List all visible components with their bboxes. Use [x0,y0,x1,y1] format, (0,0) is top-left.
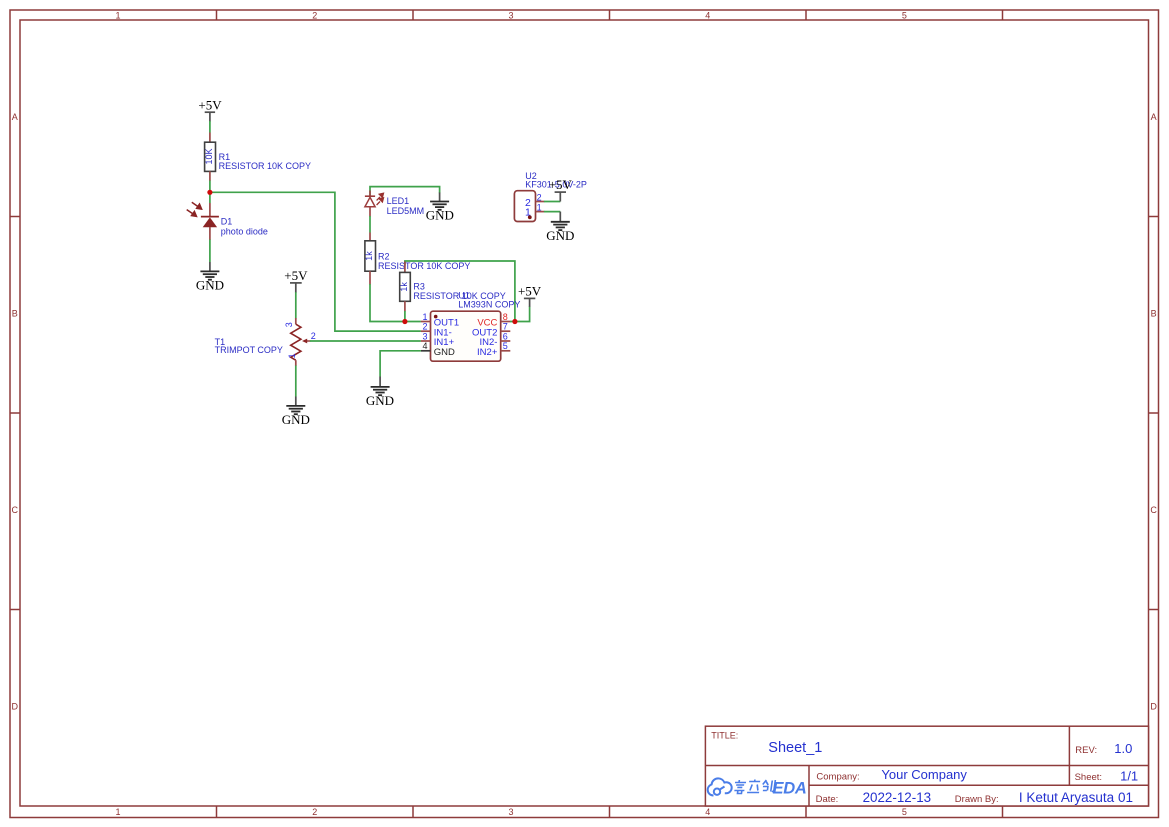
pin 1 [536,203,545,213]
svg-text:Your Company: Your Company [881,767,967,782]
pseudo 创 [762,780,776,792]
wire T1 to GND [295,366,297,397]
wire +5V to R1 [209,121,211,133]
svg-text:3: 3 [284,322,294,327]
svg-text:2022-12-13: 2022-12-13 [863,790,932,805]
pin 7 OUT2 [472,322,510,339]
svg-text:4: 4 [422,341,427,351]
svg-text:R3: R3 [413,281,425,291]
trimpot T1 [215,318,316,366]
svg-text:2: 2 [312,807,317,817]
svg-text:10K: 10K [204,148,214,164]
photo diode D1 [187,192,268,240]
wire U2 pin1 to GND [544,211,560,213]
wire R1 to junction [209,181,211,193]
svg-text:7: 7 [503,322,508,332]
power +5V (U2) [549,177,573,201]
wire LED1 to R2 [369,216,371,233]
svg-text:5: 5 [902,11,907,21]
svg-text:1k: 1k [399,282,409,292]
title block texts [711,731,1138,805]
wire net LED top [370,187,440,196]
svg-text:3: 3 [508,807,513,817]
connector U2 KF301-5.0V-2P [514,171,586,222]
pin 6 IN2- [479,331,510,348]
svg-text:TITLE:: TITLE: [711,731,738,741]
svg-text:GND: GND [282,412,310,427]
svg-text:+5V: +5V [284,268,308,283]
wire R3 top to VCC column [405,261,515,322]
svg-text:1: 1 [422,312,427,322]
svg-text:GND: GND [196,278,224,293]
svg-text:2: 2 [537,192,542,202]
svg-text:C: C [1150,505,1157,515]
svg-text:LM393N COPY: LM393N COPY [458,300,520,310]
svg-text:5: 5 [503,341,508,351]
svg-text:TRIMPOT COPY: TRIMPOT COPY [215,345,283,355]
svg-text:1k: 1k [364,251,374,261]
svg-text:GND: GND [434,347,455,358]
wire R2 to OUT1 [370,284,421,322]
svg-text:2: 2 [312,11,317,21]
resistor R1 [204,133,311,182]
svg-text:2: 2 [422,322,427,332]
svg-text:IN2+: IN2+ [477,347,498,358]
ground GND (U1) [366,377,394,409]
svg-text:GND: GND [426,208,454,223]
svg-text:D: D [1150,702,1157,712]
ground GND (U2) [546,212,574,243]
svg-text:4: 4 [705,11,710,21]
svg-text:1/1: 1/1 [1120,768,1138,783]
EasyEDA logo [708,778,732,795]
svg-text:I Ketut Aryasuta 01: I Ketut Aryasuta 01 [1019,790,1133,805]
pin 2 IN1- [421,322,452,339]
svg-text:A: A [12,112,18,122]
wire T1 wiper to IN1+ [310,340,421,342]
svg-text:+5V: +5V [518,283,542,298]
svg-text:Sheet:: Sheet: [1075,772,1102,783]
wire U2 pin2 to +5V [544,201,560,203]
pin 3 IN1+ [421,331,455,348]
pin 4 GND [421,341,455,358]
svg-text:+5V: +5V [549,177,573,192]
svg-text:1: 1 [537,203,542,213]
svg-text:REV:: REV: [1075,745,1097,756]
pseudo 嘉 [733,780,746,794]
wire D1 to GND [209,240,211,263]
svg-text:1: 1 [115,11,120,21]
op-amp U1 LM393N COPY [421,291,520,362]
svg-text:RESISTOR 10K COPY: RESISTOR 10K COPY [378,261,470,271]
svg-text:B: B [12,309,18,319]
node junction R1/D1 [207,190,212,195]
svg-text:B: B [1151,309,1157,319]
svg-text:1: 1 [115,807,120,817]
svg-text:5: 5 [902,807,907,817]
svg-text:1.0: 1.0 [1114,741,1132,756]
svg-text:8: 8 [503,312,508,322]
ground GND (D1) [196,262,224,293]
node junction VCC [512,319,517,324]
svg-text:+5V: +5V [198,97,222,112]
wire U1 GND pin to GND [380,351,421,377]
node junction R3/OUT1 [402,319,407,324]
svg-text:RESISTOR 10K COPY: RESISTOR 10K COPY [219,161,311,171]
ground GND (T1) [282,397,310,428]
svg-text:4: 4 [705,807,710,817]
svg-text:GND: GND [366,393,394,408]
svg-text:6: 6 [503,331,508,341]
svg-text:3: 3 [422,331,427,341]
svg-text:3: 3 [508,11,513,21]
pin 2 [536,192,545,202]
power +5V (R1 top) [198,97,222,121]
svg-text:EDA: EDA [773,779,807,797]
wire VCC to +5V [510,306,530,321]
ground GND (LED net) [426,193,454,223]
svg-text:D1: D1 [221,217,233,227]
svg-text:LED5MM: LED5MM [387,206,425,216]
resistor R3 [399,262,506,312]
svg-text:photo diode: photo diode [221,226,268,236]
resistor R2 [364,233,470,285]
wire R3 to OUT1 node [404,311,406,322]
svg-text:Date:: Date: [816,794,839,805]
svg-text:1: 1 [287,353,297,358]
wire junction to IN1- vertical run [210,192,421,331]
svg-text:A: A [1151,112,1157,122]
svg-text:R2: R2 [378,251,390,261]
svg-text:Company:: Company: [816,772,859,783]
svg-text:Sheet_1: Sheet_1 [768,740,822,756]
svg-text:D: D [12,702,19,712]
pin 5 IN2+ [477,341,510,358]
svg-text:LED1: LED1 [387,196,410,206]
svg-text:Drawn By:: Drawn By: [955,794,999,805]
pin 1 OUT1 [421,312,459,329]
pin 8 VCC [477,312,510,329]
svg-text:C: C [12,505,19,515]
svg-text:GND: GND [546,228,574,243]
pseudo 立 [747,780,761,793]
power +5V (T1 top) [284,268,308,293]
LED LED1 [365,191,424,217]
svg-text:2: 2 [311,331,316,341]
title block [705,726,1148,806]
power +5V (VCC) [518,283,542,306]
wire +5V to T1 [295,292,297,318]
